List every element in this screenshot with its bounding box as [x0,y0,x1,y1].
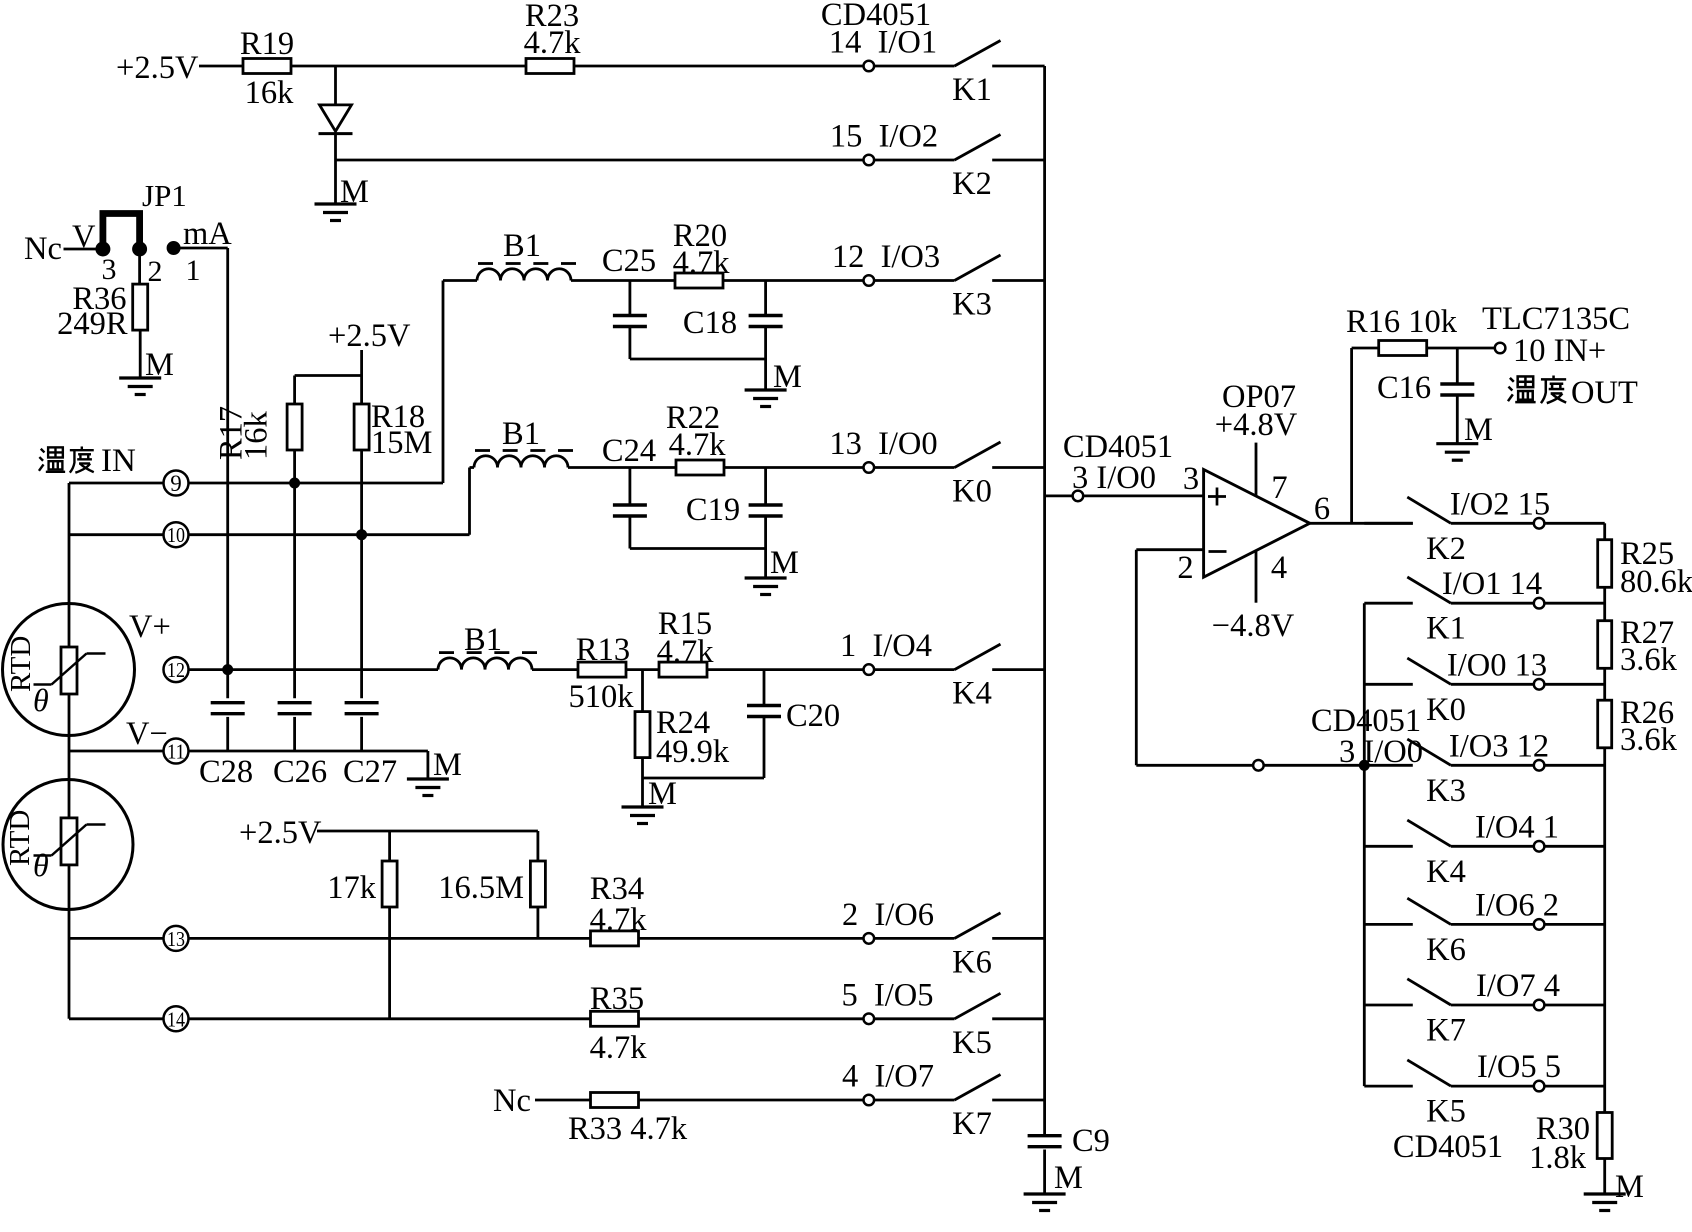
svg-text:I/O7 4: I/O7 4 [1476,968,1560,1004]
svg-text:12 I/O3: 12 I/O3 [832,239,940,275]
terminal 10 IN+ (TLC7135C) [1495,343,1506,354]
svg-text:16.5M: 16.5M [438,870,524,906]
svg-text:10 IN+: 10 IN+ [1513,333,1606,369]
wire R13 to R15 [626,668,659,671]
svg-text:I/O5 5: I/O5 5 [1477,1049,1561,1085]
wire R34 to K6 [639,937,864,940]
svg-text:4 I/O7: 4 I/O7 [842,1059,934,1095]
ground M (R24) [622,805,664,808]
wire 16.5M to row 13 [537,907,540,938]
JP1 pin V (3) [96,242,110,256]
resistor R24 49.9k (vertical) [641,670,644,712]
svg-text:17k: 17k [327,870,377,906]
svg-text:+2.5V: +2.5V [328,318,411,354]
svg-text:OUT: OUT [1571,375,1638,411]
ground M (C9) [1024,1192,1066,1195]
svg-text:3.6k: 3.6k [1620,722,1678,758]
svg-text:C27: C27 [343,754,397,790]
svg-text:49.9k: 49.9k [656,734,730,770]
svg-text:B1: B1 [502,416,540,452]
wire pin2 to R36 [138,249,141,285]
wire row 10 [69,533,164,536]
svg-text:K1: K1 [1426,611,1466,647]
svg-text:+4.8V: +4.8V [1215,407,1298,443]
switch K7 [864,1095,875,1106]
wire op-amp output pin 6 [1310,522,1413,525]
switch K0 (right ladder) [1364,683,1413,686]
ground M (C19) [745,576,787,579]
svg-text:5 I/O5: 5 I/O5 [841,977,933,1013]
ground M (R30) [1584,1192,1626,1195]
wire C25-C18 bottom rail [630,358,766,361]
junction dot (row 12 / C28) [223,665,233,675]
wire +2.5V to R19 [199,65,243,68]
switch K4 [864,664,875,675]
svg-text:I/O2 15: I/O2 15 [1450,486,1550,522]
svg-text:V−: V− [126,716,168,752]
wire bus to op-amp pin 3 [1045,494,1073,497]
net label 温度IN [39,447,65,471]
switch K5 [864,1014,875,1025]
wire row 11 (ground rail) [69,750,164,753]
svg-text:K0: K0 [1426,692,1466,728]
svg-text:I/O6 2: I/O6 2 [1475,887,1559,923]
inductor B1 (row I/O4) [438,658,532,670]
wire R19 to K1 terminal [291,65,864,68]
svg-text:12: 12 [167,658,185,682]
svg-text:3 I/O0: 3 I/O0 [1072,460,1156,496]
svg-text:3: 3 [1183,461,1199,497]
svg-text:I/O0 13: I/O0 13 [1447,647,1547,683]
svg-text:2: 2 [1177,550,1193,586]
svg-text:K2: K2 [952,166,992,202]
svg-text:K4: K4 [952,676,992,712]
resistor R17 16k (vertical) [287,404,302,450]
svg-text:−4.8V: −4.8V [1212,608,1295,644]
resistor R23 4.7k [526,59,574,74]
svg-text:3.6k: 3.6k [1620,642,1678,678]
svg-text:249R: 249R [57,306,128,342]
svg-text:10: 10 [167,523,185,547]
svg-text:M: M [773,359,802,395]
left ladder bus [1363,603,1366,1086]
ground M (C16) [1436,442,1478,445]
wire C24-C19 bottom rail [630,547,766,550]
net label 温度OUT [1508,376,1536,402]
svg-text:K6: K6 [1426,932,1466,968]
svg-text:4.7k: 4.7k [590,1030,648,1066]
svg-text:K3: K3 [1426,773,1466,809]
switch K3 [864,275,875,286]
resistor R22 4.7k [676,460,724,475]
svg-text:M: M [433,747,462,783]
svg-text:510k: 510k [569,679,635,715]
resistor R35 4.7k [591,1011,639,1026]
terminal 11 [164,739,189,764]
svg-text:K7: K7 [1426,1013,1466,1049]
switch K0 [864,462,875,473]
wire R20 to K3 [723,279,864,282]
wire row I/O2 [336,159,864,162]
capacitor C9 [1028,1134,1062,1137]
terminal 12 [164,657,189,682]
wire B1 to R20 [571,279,675,282]
svg-text:K5: K5 [1426,1094,1466,1130]
svg-text:K5: K5 [952,1025,992,1061]
svg-text:TLC7135C: TLC7135C [1482,301,1630,337]
svg-text:C26: C26 [273,754,327,790]
switch K6 (right ladder) [1364,923,1413,926]
resistor R13 510k [578,662,626,677]
wire 17k to row 14 [388,907,391,1019]
capacitor C20 [763,670,766,704]
ground M (diode) [315,202,357,205]
terminal CD4051 3 I/O0 (to +input) [1073,491,1084,502]
svg-text:C20: C20 [786,698,840,734]
wire RTD2 down to rows 13/14 [68,865,71,1019]
resistor R26 3.6k [1598,700,1612,748]
JP1 pin 2 [133,242,147,256]
svg-text:4.7k: 4.7k [673,245,731,281]
inductor B1 (row I/O3) [477,269,571,281]
wire row I/O3 [443,279,477,282]
wire op-amp pin 2 (feedback) [1136,548,1203,551]
switch K2 (right ladder) [1364,522,1413,525]
switch K2 [864,155,875,166]
terminal 14 [164,1006,189,1031]
svg-text:11: 11 [167,740,185,764]
wire R24 to ground rail [641,758,644,778]
svg-text:1 I/O4: 1 I/O4 [840,628,932,664]
svg-text:K6: K6 [952,944,992,980]
svg-text:K4: K4 [1426,854,1466,890]
svg-text:4.7k: 4.7k [524,25,582,61]
svg-text:4.7k: 4.7k [669,427,727,463]
svg-text:R13: R13 [576,632,630,668]
svg-text:IN: IN [101,443,136,479]
right ladder bus [1603,523,1606,539]
svg-text:K3: K3 [952,287,992,323]
svg-text:13 I/O0: 13 I/O0 [829,426,937,462]
svg-text:M: M [340,174,369,210]
svg-text:B1: B1 [503,228,541,264]
terminal 10 [164,522,189,547]
svg-text:B1: B1 [464,622,502,658]
ground M (R36) [119,376,161,379]
wire row 9 [69,482,164,485]
wire R30 to ground [1603,1159,1606,1195]
resistor R36 249R [133,284,148,330]
resistor 16.5M (vertical) [537,831,540,861]
svg-text:K0: K0 [952,474,992,510]
svg-text:R16 10k: R16 10k [1346,304,1458,340]
wire R15 to K4 [707,668,864,671]
svg-text:2: 2 [148,255,163,288]
wire B1 to R13 [532,668,578,671]
RTD sensor 1 [3,604,135,736]
power -4.8V (pin 4) [1255,551,1258,603]
inductor B1 (row I/O0) [474,456,568,468]
capacitor C26 column [293,483,296,698]
wire RTD1 to row 11 [68,694,71,751]
switch K6 [864,933,875,944]
ground M (C18) [745,388,787,391]
resistor R25 80.6k [1598,540,1612,588]
svg-text:+2.5V: +2.5V [116,50,199,86]
svg-text:C16: C16 [1377,370,1431,406]
capacitor C28 [211,701,245,704]
jumper JP1 (V-2 shorting bar) [103,214,140,251]
svg-text:15 I/O2: 15 I/O2 [830,119,938,155]
svg-text:V+: V+ [129,609,171,645]
resistor R19 16k [243,59,291,74]
wire R36 to ground [139,330,142,378]
wire Nc to JP1 pin3 [64,248,103,251]
svg-text:K7: K7 [952,1106,992,1142]
wire mA to C28 column [180,247,228,250]
wire row 13 [69,937,164,940]
svg-text:4.7k: 4.7k [657,634,715,670]
svg-text:M: M [770,545,799,581]
wire row 12 / I/O4 [189,668,439,671]
svg-text:I/O4 1: I/O4 1 [1475,809,1559,845]
svg-text:R35: R35 [590,981,644,1017]
svg-text:JP1: JP1 [142,178,187,213]
svg-text:2 I/O6: 2 I/O6 [842,897,934,933]
svg-text:C9: C9 [1072,1123,1110,1159]
switch K1 (right ladder) [1364,602,1413,605]
svg-text:K2: K2 [1426,531,1466,567]
terminal 9 [164,471,189,496]
svg-text:R33 4.7k: R33 4.7k [568,1111,688,1147]
resistor R15 4.7k [659,662,707,677]
switch K3 (right ladder) [1364,764,1413,767]
terminal CD4051 3 I/O0 (feedback) [1253,760,1264,771]
diode VD1 [334,66,337,105]
capacitor C27 column [360,535,363,699]
svg-text:M: M [648,776,677,812]
svg-text:C19: C19 [686,492,740,528]
svg-text:14: 14 [167,1007,185,1031]
svg-text:M: M [1615,1169,1644,1205]
svg-text:80.6k: 80.6k [1620,564,1692,600]
svg-text:CD4051: CD4051 [1393,1129,1503,1165]
wire R18 to row 10 [360,450,363,535]
junction dot (R17/row 9) [290,478,300,488]
svg-text:RTD: RTD [4,810,36,866]
svg-text:M: M [1464,412,1493,448]
wire row 14 [69,1017,164,1020]
terminal 13 [164,926,189,951]
resistor R34 4.7k [591,931,639,946]
svg-text:6: 6 [1314,491,1330,527]
resistor R33 4.7k [591,1093,639,1108]
svg-text:1.8k: 1.8k [1529,1140,1587,1176]
resistor 17k (vertical) [388,831,391,861]
svg-text:K1: K1 [952,72,992,108]
JP1 pin mA (1) [167,242,180,255]
wire row I/O0 [470,466,475,469]
svg-text:7: 7 [1271,470,1287,506]
wire R33 to K7 [639,1099,864,1102]
wire R16 to TLC7135C pin 10 [1426,347,1495,350]
switch K1 [864,61,875,72]
svg-text:I/O1 14: I/O1 14 [1442,566,1542,602]
switch K4 (right ladder) [1364,845,1413,848]
switch K5 (right ladder) [1364,1085,1413,1088]
wire R35 to K5 [639,1017,864,1020]
svg-text:13: 13 [167,927,185,951]
wire R17 to row 9 [293,450,296,483]
wire Nc to R33 [535,1099,591,1102]
svg-text:+2.5V: +2.5V [239,815,322,851]
svg-text:15M: 15M [371,425,432,461]
junction dot (R18/row 10) [357,530,367,540]
wire R22 to K0 [724,466,864,469]
wire B1 to R22 [568,466,676,469]
svg-text:M: M [145,347,174,383]
ground M (row 11) [407,777,449,780]
svg-text:RTD: RTD [5,636,37,692]
svg-text:M: M [1054,1160,1083,1196]
junction dot (feedback / ladder bus) [1359,760,1369,770]
switch K7 (right ladder) [1364,1004,1413,1007]
svg-text:C18: C18 [683,305,737,341]
capacitor C16 [1456,348,1459,383]
resistor R20 4.7k [675,273,723,288]
svg-text:Nc: Nc [493,1083,531,1119]
resistor R27 3.6k [1598,621,1612,669]
svg-text:4.7k: 4.7k [590,902,648,938]
resistor R16 10k [1379,341,1427,356]
svg-text:16k: 16k [245,75,295,111]
wire +2.5V rail [317,830,538,833]
bus wire (CD4051 common, vertical) [1043,66,1046,1135]
resistor R30 1.8k [1597,1113,1612,1159]
op-amp U1 OP07 [1204,470,1310,578]
svg-text:R19: R19 [240,26,294,62]
svg-text:C28: C28 [199,754,253,790]
svg-text:4: 4 [1271,550,1287,586]
RTD sensor 2 [3,780,133,910]
wire +2.5V to R17/R18 [360,350,363,376]
wire output up to R16 [1350,348,1353,523]
svg-text:16k: 16k [239,411,275,461]
svg-text:C24: C24 [602,433,656,469]
svg-text:14 I/O1: 14 I/O1 [829,25,937,61]
svg-text:1: 1 [186,254,201,287]
svg-text:9: 9 [170,471,182,496]
svg-text:Nc: Nc [24,231,62,267]
svg-text:C25: C25 [602,243,656,279]
svg-text:I/O3 12: I/O3 12 [1449,728,1549,764]
resistor R18 15M (vertical) [354,404,369,450]
svg-text:V: V [72,219,96,255]
